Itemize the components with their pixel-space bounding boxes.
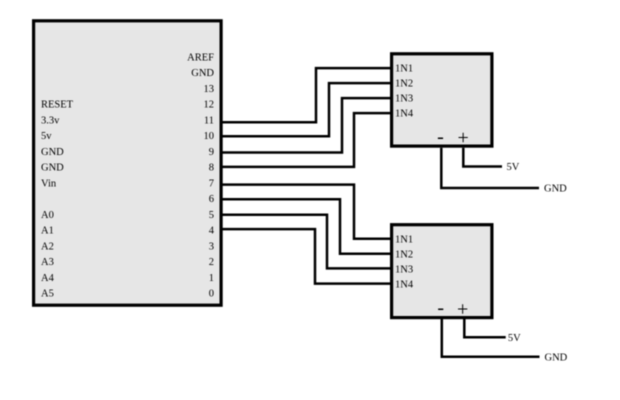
svg-text:GND: GND xyxy=(41,147,64,158)
svg-text:-: - xyxy=(437,126,444,148)
svg-text:RESET: RESET xyxy=(41,100,74,111)
svg-text:A3: A3 xyxy=(41,257,54,268)
svg-text:1N3: 1N3 xyxy=(395,264,413,275)
svg-text:1N2: 1N2 xyxy=(395,249,413,260)
wire pin10 to U2 1N2 xyxy=(222,83,390,136)
svg-text:A2: A2 xyxy=(41,241,54,252)
svg-text:GND: GND xyxy=(544,184,567,195)
svg-text:9: 9 xyxy=(209,147,214,158)
svg-text:8: 8 xyxy=(209,163,214,174)
wire pin8 to U2 1N4 xyxy=(222,113,390,167)
svg-text:Vin: Vin xyxy=(41,178,57,189)
wire U2 minus to GND xyxy=(441,148,539,188)
svg-text:11: 11 xyxy=(204,115,214,126)
svg-text:+: + xyxy=(457,299,468,321)
svg-text:12: 12 xyxy=(204,100,215,111)
wire pin7 to U3 1N1 xyxy=(222,185,390,239)
svg-text:1: 1 xyxy=(209,273,214,284)
svg-text:5v: 5v xyxy=(41,131,52,142)
svg-text:A1: A1 xyxy=(41,226,54,237)
svg-text:GND: GND xyxy=(545,352,568,363)
svg-text:A0: A0 xyxy=(41,210,54,221)
wire pin9 to U2 1N3 xyxy=(222,98,390,152)
svg-text:1N1: 1N1 xyxy=(395,234,413,245)
arduino U1 xyxy=(34,21,222,305)
svg-text:1N2: 1N2 xyxy=(395,79,413,90)
driver module U3 xyxy=(392,225,492,318)
svg-text:AREF: AREF xyxy=(187,53,214,64)
svg-text:+: + xyxy=(458,127,469,149)
svg-text:3.3v: 3.3v xyxy=(41,115,60,126)
svg-text:5V: 5V xyxy=(508,333,521,344)
wire pin11 to U2 1N1 xyxy=(222,68,390,122)
svg-text:1N4: 1N4 xyxy=(395,109,414,120)
svg-text:7: 7 xyxy=(209,178,214,189)
svg-text:10: 10 xyxy=(204,131,215,142)
wire pin4 to U3 1N4 xyxy=(222,229,390,284)
wire U3 plus to 5V xyxy=(464,319,505,337)
wire U2 plus to 5V xyxy=(463,148,502,167)
svg-text:4: 4 xyxy=(209,226,215,237)
svg-text:0: 0 xyxy=(209,289,214,300)
svg-text:1N1: 1N1 xyxy=(395,64,413,75)
svg-text:5V: 5V xyxy=(507,162,520,173)
svg-text:GND: GND xyxy=(41,163,64,174)
svg-text:13: 13 xyxy=(204,84,215,95)
svg-text:2: 2 xyxy=(209,257,214,268)
svg-text:6: 6 xyxy=(209,194,214,205)
wire pin6 to U3 1N2 xyxy=(222,199,390,254)
svg-text:3: 3 xyxy=(209,241,214,252)
svg-text:GND: GND xyxy=(191,68,214,79)
wire pin5 to U3 1N3 xyxy=(222,215,390,269)
svg-text:-: - xyxy=(437,297,444,319)
svg-text:A4: A4 xyxy=(41,273,55,284)
svg-text:1N3: 1N3 xyxy=(395,94,413,105)
driver module U2 xyxy=(392,54,492,146)
wire U3 minus to GND xyxy=(442,319,540,357)
svg-text:5: 5 xyxy=(209,210,214,221)
svg-text:A5: A5 xyxy=(41,289,54,300)
svg-text:1N4: 1N4 xyxy=(395,279,414,290)
